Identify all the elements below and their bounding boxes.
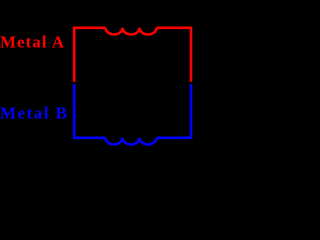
coil L1: top heater coil on Metal A [106,28,157,35]
wire: Metal A top-right horizontal + right vertical (red) [157,28,192,82]
wire: Metal B left vertical + bottom-left horizontal (blue) [74,84,105,138]
svg-text:Metal B: Metal B [0,104,67,123]
svg-text:Metal A: Metal A [0,33,65,52]
wire: Metal B bottom-right horizontal + right vertical (blue) [157,84,192,138]
coil L2: bottom heater coil on Metal B [106,138,157,145]
wire: Metal A left vertical + top-left horizontal (red) [74,28,105,82]
